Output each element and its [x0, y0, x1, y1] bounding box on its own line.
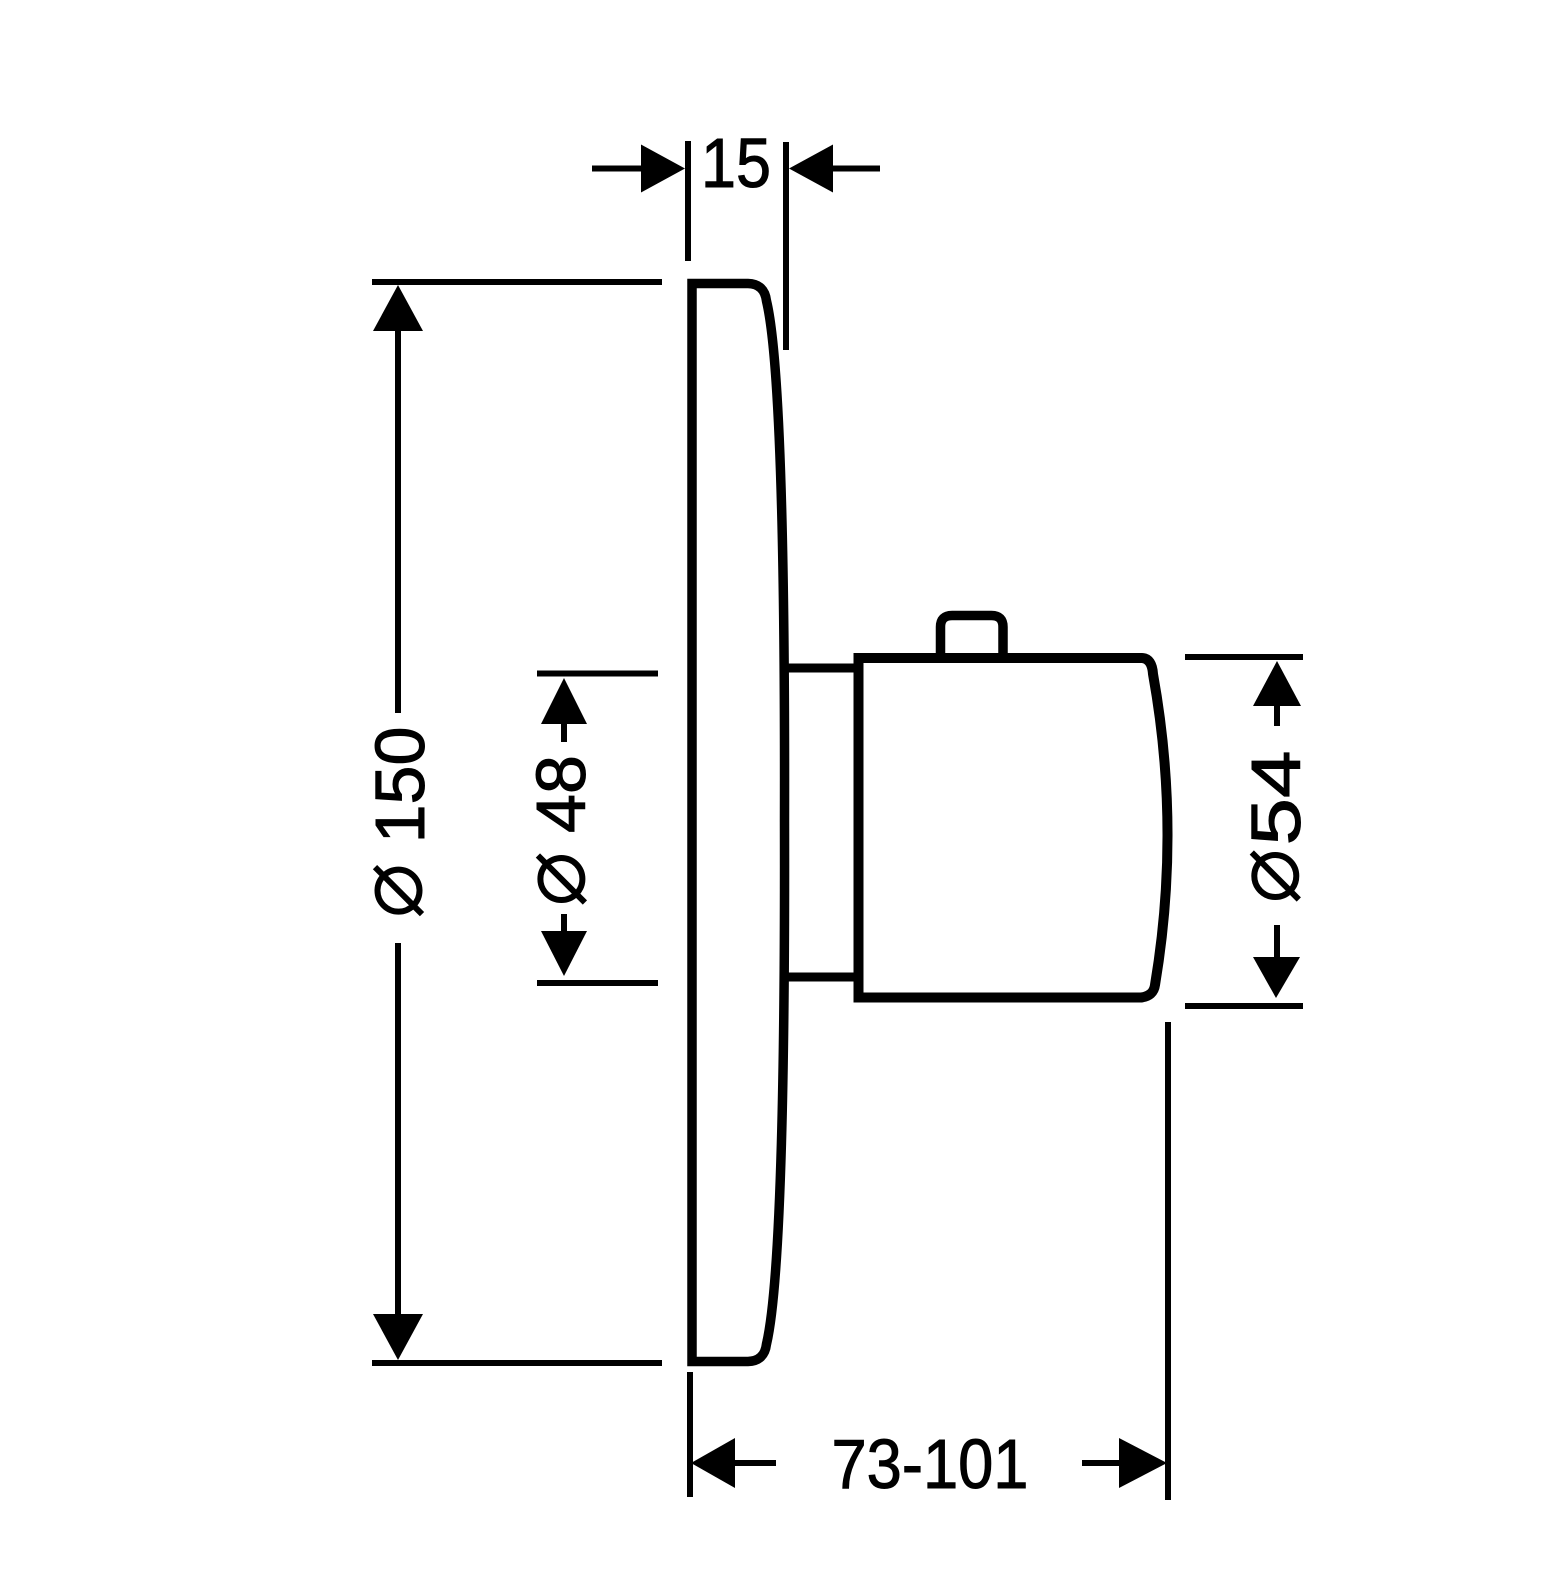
dim D150: label [361, 727, 439, 914]
dim 73-101: left extension line [687, 1372, 693, 1497]
dim 15: right extension line [783, 142, 789, 350]
svg-text:73-101: 73-101 [832, 1425, 1029, 1503]
dim D48: bottom extension line [537, 980, 658, 986]
dim D54: up arrowhead [1253, 661, 1301, 706]
handle stem lower outline [780, 973, 860, 982]
svg-text:54: 54 [1237, 751, 1315, 846]
dim D48: down arrowhead [541, 931, 587, 976]
dim D150: down arrowhead [373, 1314, 423, 1360]
dim D48: top extension line [537, 671, 658, 677]
dim 15: left extension line [685, 141, 691, 261]
dim 73-101: right extension line [1165, 1022, 1171, 1500]
dim 15: right leader line [833, 166, 880, 172]
dim D54: top extension line [1185, 654, 1303, 660]
dim 73-101: left leader line [733, 1460, 776, 1466]
svg-text:150: 150 [361, 727, 439, 844]
dim D48: dimension line upper tail [561, 720, 567, 742]
dim D48: dimension line lower tail [561, 914, 567, 934]
dim 73-101: left arrowhead [691, 1438, 735, 1488]
dim D150: top extension line [372, 279, 662, 285]
dim D54: bottom extension line [1185, 1003, 1303, 1009]
dim D150: dimension line upper segment [395, 325, 401, 713]
dim 73-101: right leader line [1082, 1460, 1120, 1466]
dim D54: dimension line upper tail [1274, 703, 1280, 726]
dim D150: dimension line lower segment [395, 943, 401, 1320]
dim 15: left arrowhead [641, 145, 685, 193]
dim D48: up arrowhead [541, 678, 587, 724]
dim 15: right arrowhead [789, 145, 833, 193]
dim D54: down arrowhead [1253, 957, 1300, 998]
dim D54: dimension line lower tail [1274, 925, 1280, 957]
dim D150: up arrowhead [373, 285, 423, 331]
dim 15: left leader line [592, 166, 645, 172]
dim D48: label [522, 755, 600, 902]
svg-text:48: 48 [522, 755, 600, 833]
thermostat knob [859, 658, 1168, 998]
dim D150: bottom extension line [372, 1360, 662, 1366]
escutcheon plate (side view) [692, 284, 785, 1362]
handle stem upper outline [780, 664, 860, 673]
knob button [941, 616, 1004, 663]
svg-text:15: 15 [701, 124, 771, 202]
dim D54: label [1237, 751, 1315, 900]
dim 73-101: right arrowhead [1119, 1438, 1167, 1488]
